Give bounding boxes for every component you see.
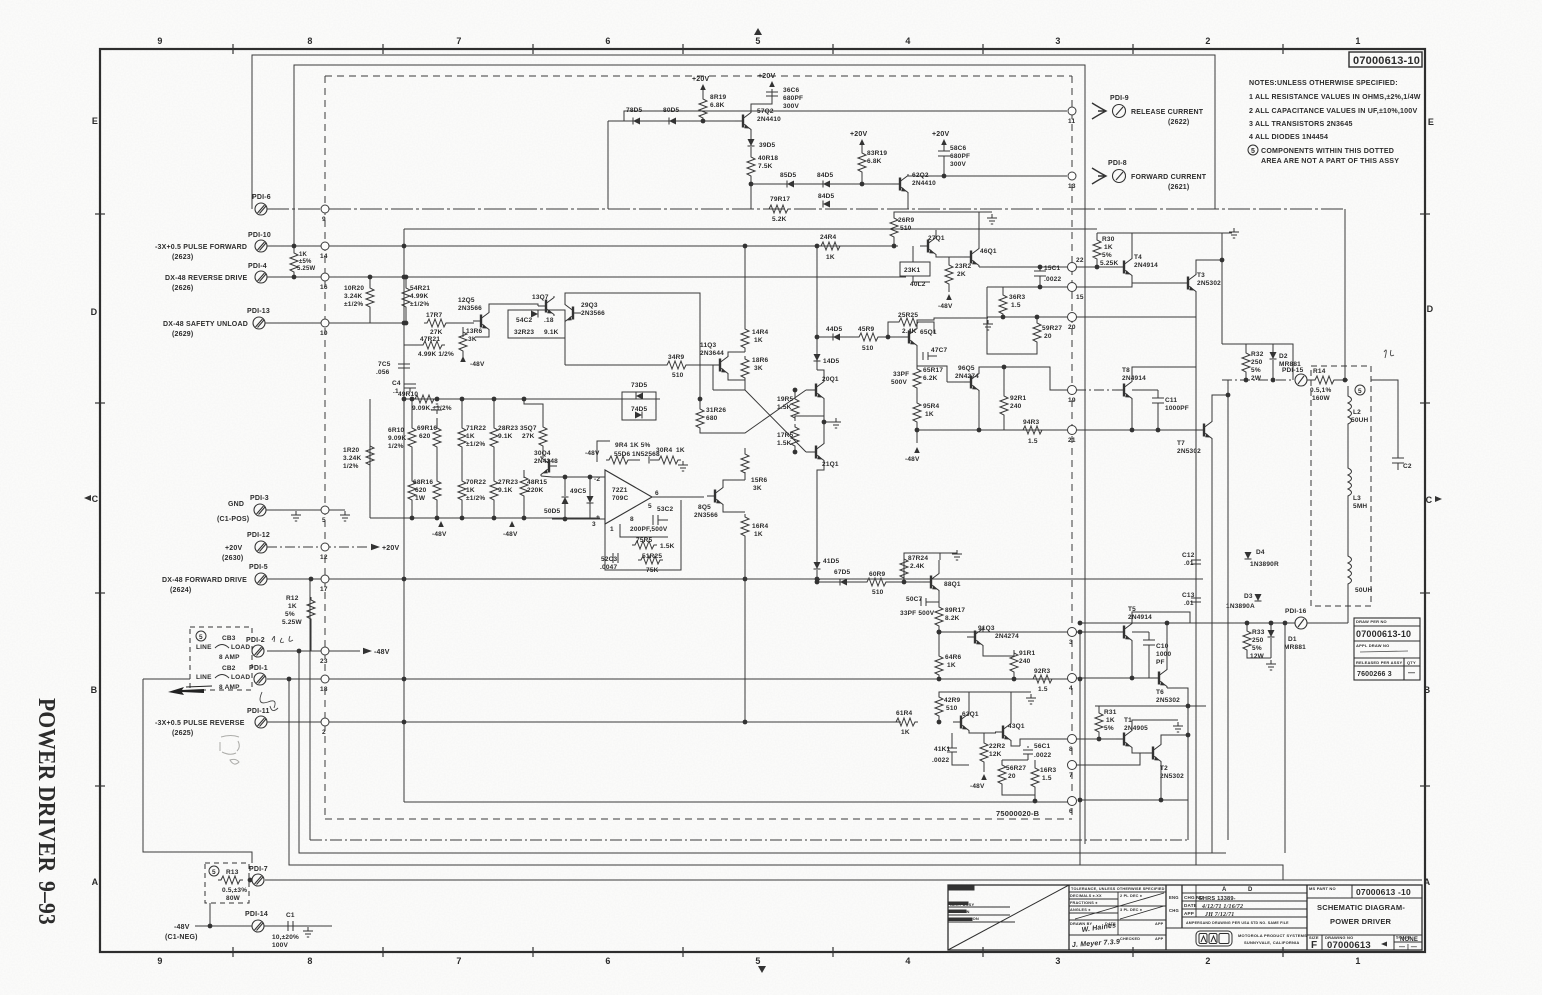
svg-text:250: 250 bbox=[1252, 637, 1264, 644]
svg-text:+20V: +20V bbox=[850, 131, 867, 138]
svg-text:R32: R32 bbox=[1251, 351, 1264, 358]
resistor 19R5 bbox=[794, 390, 796, 396]
svg-text:3 PL DEC ±: 3 PL DEC ± bbox=[1120, 908, 1142, 912]
title section part no row bbox=[1307, 885, 1422, 950]
svg-text:1: 1 bbox=[1355, 956, 1360, 966]
junction T6 emitter x1188 bbox=[1186, 704, 1191, 709]
wire 85D5 row bbox=[751, 183, 898, 185]
junction input a bbox=[563, 475, 568, 480]
vertical rail x1080 bbox=[1079, 632, 1081, 865]
junction bus dots bbox=[402, 244, 1083, 725]
wire PDI-14 bbox=[195, 925, 252, 927]
PDI-3 net bbox=[266, 509, 345, 511]
revision table bbox=[1166, 885, 1307, 928]
dotted assy boundary top bbox=[325, 75, 1072, 77]
node 3 bbox=[1068, 628, 1077, 637]
svg-text:47R21: 47R21 bbox=[420, 336, 440, 343]
capacitor C4 bbox=[404, 384, 416, 392]
diode 84D5b on PDI-6 net bbox=[823, 201, 830, 208]
svg-text:SUNNYVALE, CALIFORNIA: SUNNYVALE, CALIFORNIA bbox=[1244, 940, 1299, 945]
resistor R3 on inner box leg bbox=[290, 246, 298, 277]
resistor R14 bbox=[1307, 376, 1348, 384]
svg-text:25R25: 25R25 bbox=[898, 312, 918, 319]
svg-text:PDI-10: PDI-10 bbox=[248, 232, 271, 239]
svg-text:1.5: 1.5 bbox=[1028, 438, 1038, 445]
svg-text:7: 7 bbox=[456, 956, 461, 966]
note 5 marker in filter box bbox=[1355, 385, 1365, 395]
wire 62Q2 collector to fwd current net bbox=[908, 174, 1067, 176]
svg-text:9R4: 9R4 bbox=[615, 442, 628, 449]
wire 96Q5 emitter bbox=[978, 392, 980, 430]
svg-text:510: 510 bbox=[672, 372, 684, 379]
svg-text:13R6: 13R6 bbox=[466, 328, 483, 335]
svg-text:53C2: 53C2 bbox=[657, 506, 674, 513]
connector circles on left dotted boundary bbox=[321, 205, 329, 726]
svg-text:1: 1 bbox=[610, 526, 614, 533]
svg-text:1K: 1K bbox=[754, 531, 763, 538]
svg-text:CB2: CB2 bbox=[222, 665, 236, 672]
zone tick marks left and right bbox=[95, 214, 1430, 786]
tolerance section bbox=[1069, 892, 1166, 935]
node 12 bbox=[321, 543, 329, 551]
svg-text:20Q1: 20Q1 bbox=[822, 376, 839, 383]
PDI-11 net bbox=[267, 721, 901, 723]
svg-text:1K: 1K bbox=[466, 433, 475, 440]
connector circles on right dotted boundary bbox=[1068, 107, 1077, 806]
svg-text:68R16: 68R16 bbox=[413, 479, 433, 486]
svg-text:1.5: 1.5 bbox=[1038, 686, 1048, 693]
junction 92R1 top bbox=[1002, 365, 1007, 370]
svg-text:49R10: 49R10 bbox=[398, 391, 418, 398]
eng column divider bbox=[1181, 885, 1183, 928]
wire 12Q5 emitter bbox=[475, 331, 489, 337]
note 5 marker at R13 bbox=[209, 866, 219, 876]
svg-text:±1/2%: ±1/2% bbox=[466, 441, 485, 448]
svg-text:5: 5 bbox=[648, 503, 652, 510]
svg-text:74D5: 74D5 bbox=[631, 406, 648, 413]
wire 12Q5 collector bbox=[489, 304, 538, 311]
resistor 16R3 bbox=[1031, 760, 1039, 801]
vertical rail x1285 bbox=[1284, 623, 1286, 853]
svg-text:49C5: 49C5 bbox=[570, 488, 587, 495]
junction PDI-1 bbox=[287, 677, 292, 682]
node 13 bbox=[1068, 172, 1076, 180]
svg-text:2N5302: 2N5302 bbox=[1177, 448, 1201, 455]
svg-text:(2626): (2626) bbox=[172, 285, 193, 292]
svg-text:4 ALL DIODES 1N4454: 4 ALL DIODES 1N4454 bbox=[1249, 133, 1328, 141]
junction C11 bottom bbox=[1156, 428, 1161, 433]
wire 27Q1 emitter to 46Q1 base bbox=[936, 256, 964, 257]
resistor 17R7 on PDI-13 net bbox=[424, 319, 474, 327]
svg-text:680: 680 bbox=[706, 415, 718, 422]
svg-text:QTY: QTY bbox=[1407, 660, 1416, 665]
svg-text:83R19: 83R19 bbox=[867, 150, 887, 157]
svg-text:92R1: 92R1 bbox=[1010, 395, 1027, 402]
svg-text:17R7: 17R7 bbox=[426, 312, 443, 319]
junction input b bbox=[588, 475, 593, 480]
wire bottom loop bbox=[1080, 799, 1188, 801]
junction 17R5 base bbox=[793, 450, 798, 455]
svg-text:1K: 1K bbox=[947, 662, 956, 669]
svg-text:T4: T4 bbox=[1134, 254, 1142, 261]
svg-text:17R5: 17R5 bbox=[777, 432, 794, 439]
PDI-9 output arrow bbox=[1092, 103, 1106, 119]
connector PDI-7 bbox=[252, 874, 264, 886]
svg-text:45R9: 45R9 bbox=[858, 326, 875, 333]
svg-text:NOTES:UNLESS OTHERWISE SPECIFI: NOTES:UNLESS OTHERWISE SPECIFIED: bbox=[1249, 79, 1398, 87]
svg-text:35Q7: 35Q7 bbox=[520, 425, 537, 432]
capacitor 50C7 bbox=[920, 598, 922, 606]
wire T7 collector bbox=[1212, 395, 1228, 420]
node 6 bbox=[1068, 797, 1077, 806]
node 21 bbox=[1068, 426, 1077, 435]
svg-text:26R9: 26R9 bbox=[898, 217, 915, 224]
zone tick marks top bbox=[233, 44, 1283, 54]
transistor 11Q3 bbox=[712, 355, 728, 375]
pencil smudge below PDI-11 bbox=[220, 736, 239, 765]
svg-text:.0022: .0022 bbox=[1034, 752, 1051, 759]
svg-text:240: 240 bbox=[1019, 658, 1031, 665]
svg-text:2 ALL CAPACITANCE VALUES IN U: 2 ALL CAPACITANCE VALUES IN UF,±10%,100V bbox=[1249, 107, 1417, 115]
ground emitters bbox=[831, 418, 841, 428]
svg-text:78D5: 78D5 bbox=[626, 107, 643, 114]
wire R31 loop bbox=[1095, 705, 1206, 707]
note 5 marker circle bbox=[196, 631, 206, 641]
svg-text:3K: 3K bbox=[753, 485, 762, 492]
notes block bbox=[1249, 79, 1421, 165]
svg-text:CHG: CHG bbox=[1169, 908, 1179, 913]
junction T6 collector bbox=[1165, 621, 1170, 626]
node 14 bbox=[321, 242, 329, 250]
svg-text:AREA ARE NOT A PART OF THIS AS: AREA ARE NOT A PART OF THIS ASSY bbox=[1261, 157, 1399, 165]
fold arrow left C bbox=[84, 495, 91, 501]
svg-text:APP: APP bbox=[1155, 922, 1164, 926]
transistor 21Q1 bbox=[808, 442, 824, 462]
transistor 88Q1 bbox=[923, 572, 939, 592]
resistor 40R18 bbox=[747, 154, 755, 179]
junction R32 bottom bbox=[1244, 378, 1249, 383]
svg-text:1.5: 1.5 bbox=[1011, 302, 1021, 309]
wire 29Q3 emitter bbox=[564, 323, 566, 365]
svg-text:2N4274: 2N4274 bbox=[995, 633, 1019, 640]
resistor 65R17 bbox=[913, 366, 921, 391]
svg-text:MS PART NO: MS PART NO bbox=[1309, 886, 1336, 891]
svg-text:33PF 500V: 33PF 500V bbox=[900, 610, 935, 617]
svg-text:1K: 1K bbox=[466, 487, 475, 494]
svg-text:31R26: 31R26 bbox=[706, 407, 726, 414]
wire to 21Q1 base bbox=[806, 451, 809, 453]
wire 8Q5 collector bbox=[723, 480, 745, 486]
svg-text:94R3: 94R3 bbox=[1023, 419, 1040, 426]
svg-text:39D5: 39D5 bbox=[759, 142, 776, 149]
crossover wire a bbox=[726, 390, 806, 433]
svg-text:1N3890A: 1N3890A bbox=[1226, 603, 1255, 610]
svg-text:23R2: 23R2 bbox=[955, 263, 972, 270]
svg-text:6.8K: 6.8K bbox=[710, 102, 725, 109]
wire 40R18 to 85D5 row bbox=[750, 179, 752, 209]
rev table right divider bbox=[1306, 885, 1308, 950]
wire y678 right of dashed bbox=[143, 679, 252, 863]
wire net15 bbox=[987, 286, 1067, 288]
svg-text:88Q1: 88Q1 bbox=[944, 581, 961, 588]
svg-text:1000PF: 1000PF bbox=[1165, 405, 1189, 412]
node 22 bbox=[1068, 263, 1077, 272]
wire 44D5 row bbox=[817, 336, 856, 338]
svg-text:L2: L2 bbox=[1353, 409, 1361, 416]
svg-text:1K: 1K bbox=[1104, 244, 1113, 251]
capacitor C11 bbox=[1157, 390, 1159, 398]
svg-text:34R9: 34R9 bbox=[668, 354, 685, 361]
wire 57Q2 collector bbox=[751, 89, 772, 111]
node 15 bbox=[1068, 283, 1077, 292]
connector PDI-14 bbox=[252, 920, 264, 932]
+20V arrow at PDI-12 bbox=[371, 544, 380, 550]
resistor 75R5 bbox=[632, 541, 657, 549]
transistor 96Q5 bbox=[963, 372, 979, 392]
svg-text:30Q4: 30Q4 bbox=[534, 450, 551, 457]
connector PDI-12 bbox=[255, 541, 267, 553]
svg-text:D4: D4 bbox=[1256, 549, 1265, 556]
svg-text:4: 4 bbox=[1069, 685, 1073, 692]
connector PDI-8 bbox=[1113, 170, 1126, 183]
svg-text:T3: T3 bbox=[1197, 272, 1205, 279]
svg-text:PDI-12: PDI-12 bbox=[247, 532, 270, 539]
svg-text:510: 510 bbox=[872, 589, 884, 596]
svg-text:84D5: 84D5 bbox=[818, 193, 835, 200]
capacitor 41K1 bbox=[951, 733, 953, 748]
wire rail to PDI-5 chain bbox=[816, 570, 818, 582]
wire 57Q2 emitter drop bbox=[607, 121, 609, 209]
wire T3 collector bbox=[1196, 260, 1222, 273]
svg-text:C: C bbox=[92, 494, 99, 504]
diode pair box 73D5/74D5 bbox=[622, 392, 656, 420]
transistor 65Q1 bbox=[901, 327, 917, 347]
svg-text:5: 5 bbox=[199, 634, 203, 641]
svg-text:59R27: 59R27 bbox=[1042, 325, 1062, 332]
resistor 15R6 bbox=[744, 472, 746, 480]
resistor 91R1 bbox=[1013, 650, 1015, 656]
capacitor 56C1 bbox=[1027, 746, 1029, 748]
vertical bus x404 bbox=[403, 229, 405, 802]
wire diode row bbox=[608, 120, 736, 122]
grid column 1R20 bbox=[366, 443, 374, 468]
svg-text:2: 2 bbox=[1205, 36, 1210, 46]
svg-text:DATE: DATE bbox=[1184, 903, 1197, 908]
bus wire y228 bbox=[404, 228, 1097, 230]
zone letters right bbox=[1424, 117, 1434, 887]
junction 89R17 bottom bbox=[937, 630, 942, 635]
wire 63Q1 collector bbox=[968, 692, 970, 712]
svg-text:9.1K: 9.1K bbox=[544, 329, 559, 336]
junction 17R7 bbox=[404, 321, 409, 326]
vertical rail x1194 bbox=[1195, 367, 1197, 865]
svg-text:9.09K: 9.09K bbox=[388, 435, 406, 442]
svg-text:12: 12 bbox=[320, 554, 328, 561]
svg-text:620: 620 bbox=[415, 487, 427, 494]
svg-text:±1/2%: ±1/2% bbox=[466, 495, 485, 502]
svg-text:7600266 3: 7600266 3 bbox=[1357, 671, 1392, 678]
diode 14D5 on rail bbox=[814, 354, 821, 361]
svg-text:41K1: 41K1 bbox=[934, 746, 951, 753]
junction 19R5 base bbox=[793, 388, 798, 393]
svg-text:16R3: 16R3 bbox=[1040, 767, 1057, 774]
svg-text:3 ALL TRANSISTORS 2N3645: 3 ALL TRANSISTORS 2N3645 bbox=[1249, 120, 1353, 128]
centering arrow top bbox=[754, 28, 762, 35]
svg-text:-48V: -48V bbox=[905, 456, 920, 463]
svg-text:56C1: 56C1 bbox=[1034, 743, 1051, 750]
svg-text:1K 5%: 1K 5% bbox=[630, 442, 651, 449]
svg-text:5%: 5% bbox=[1102, 252, 1112, 259]
wire 34R9 row bbox=[565, 364, 664, 366]
svg-text:5MH: 5MH bbox=[1353, 503, 1367, 510]
svg-text:3.24K: 3.24K bbox=[344, 293, 362, 300]
svg-text:07000613-10: 07000613-10 bbox=[1356, 629, 1411, 639]
resistor 47R21 bbox=[404, 341, 445, 349]
svg-text:DX-48 SAFETY UNLOAD: DX-48 SAFETY UNLOAD bbox=[163, 321, 248, 328]
svg-text:JH 7/12/71: JH 7/12/71 bbox=[1204, 912, 1235, 918]
svg-text:1K: 1K bbox=[1106, 717, 1115, 724]
wire node8 to T1 base bbox=[1076, 738, 1117, 740]
svg-text:1 ALL RESISTANCE VALUES IN OH: 1 ALL RESISTANCE VALUES IN OHMS,±2%,1/4W bbox=[1249, 93, 1421, 101]
-48V below 22R2 bbox=[981, 774, 987, 780]
svg-text:9: 9 bbox=[322, 216, 326, 223]
svg-text:48R15: 48R15 bbox=[527, 479, 547, 486]
wire R13 to PDI-14 bbox=[209, 903, 211, 926]
svg-text:42R9: 42R9 bbox=[944, 697, 961, 704]
ground T1 bbox=[1172, 719, 1178, 721]
svg-text:2N4274: 2N4274 bbox=[955, 373, 979, 380]
svg-text:2N3566: 2N3566 bbox=[581, 310, 605, 317]
svg-text:0.5,1%: 0.5,1% bbox=[1310, 387, 1331, 394]
svg-text:44D5: 44D5 bbox=[826, 326, 843, 333]
svg-text:-48V: -48V bbox=[174, 924, 190, 931]
svg-text:-48V: -48V bbox=[938, 303, 953, 310]
svg-text:4: 4 bbox=[905, 956, 910, 966]
svg-text:30R4: 30R4 bbox=[656, 447, 673, 454]
wire 43Q1 collector bbox=[1010, 692, 1012, 722]
svg-text:E: E bbox=[1428, 117, 1434, 127]
svg-text:300V: 300V bbox=[783, 103, 799, 110]
junction 54R21 top bbox=[404, 275, 409, 280]
svg-text:±5%: ±5% bbox=[299, 259, 312, 265]
node 16 bbox=[321, 273, 329, 281]
svg-text:(2623): (2623) bbox=[172, 254, 193, 261]
svg-text:250: 250 bbox=[1251, 359, 1263, 366]
svg-text:12W: 12W bbox=[1250, 653, 1265, 660]
junction 87R24 bbox=[902, 580, 907, 585]
svg-text:15R6: 15R6 bbox=[751, 477, 768, 484]
svg-text:72Z1: 72Z1 bbox=[612, 487, 628, 494]
bottom dash-dot return wire bbox=[309, 579, 311, 840]
wire 43Q1 out to node 8 bbox=[1020, 739, 1067, 746]
resistor 54R21 bbox=[405, 277, 407, 285]
junction T7 collector bbox=[1226, 393, 1231, 398]
node 23 bbox=[321, 647, 329, 655]
svg-text:100V: 100V bbox=[272, 942, 288, 949]
svg-text:80D5: 80D5 bbox=[663, 107, 680, 114]
svg-text:5%: 5% bbox=[1251, 367, 1261, 374]
inductor L3 bbox=[1348, 435, 1352, 520]
node 20 bbox=[1068, 313, 1077, 322]
svg-text:40R18: 40R18 bbox=[758, 155, 778, 162]
svg-text:6.2K: 6.2K bbox=[923, 375, 938, 382]
amp input network box edge bbox=[370, 399, 660, 518]
svg-text:21: 21 bbox=[1068, 437, 1076, 444]
svg-text:PDI-2: PDI-2 bbox=[246, 637, 265, 644]
svg-text:80W: 80W bbox=[226, 895, 241, 902]
junction 16R3 bottom bbox=[1033, 799, 1038, 804]
svg-text:MR881: MR881 bbox=[1284, 644, 1306, 651]
ground at C1 bbox=[303, 927, 313, 937]
junction T8 emitter bbox=[1130, 428, 1135, 433]
svg-text:16R4: 16R4 bbox=[752, 523, 769, 530]
svg-text:7C5: 7C5 bbox=[378, 361, 391, 368]
svg-text:7: 7 bbox=[1069, 772, 1073, 779]
junction T5 emitter bbox=[1130, 676, 1135, 681]
inductor L2 bbox=[1348, 386, 1352, 435]
svg-text:16: 16 bbox=[320, 284, 328, 291]
svg-text:.0047: .0047 bbox=[600, 564, 617, 571]
junction T2 collector bbox=[1186, 733, 1191, 738]
resistor 48R15 column bbox=[520, 470, 528, 518]
svg-text:75000020-B: 75000020-B bbox=[996, 809, 1040, 818]
junction 40R18 bbox=[749, 182, 754, 187]
svg-text:3: 3 bbox=[592, 521, 596, 528]
svg-text:2N4410: 2N4410 bbox=[912, 180, 936, 187]
svg-text:PDI-14: PDI-14 bbox=[245, 911, 268, 918]
capacitor 47C7 bbox=[922, 352, 924, 360]
wire noninverting input bbox=[552, 518, 605, 520]
svg-text:17: 17 bbox=[320, 586, 328, 593]
svg-text:8 AMP: 8 AMP bbox=[219, 684, 240, 691]
resistor 49R10 on y399 bbox=[412, 395, 437, 403]
svg-text:91R1: 91R1 bbox=[1019, 650, 1036, 657]
wire T8 emitter bbox=[1131, 400, 1133, 430]
drawing sheet border frame bbox=[100, 49, 1425, 952]
connector PDI-15 bbox=[1295, 374, 1307, 386]
svg-text:PDI-5: PDI-5 bbox=[249, 564, 268, 571]
svg-text:5: 5 bbox=[755, 36, 760, 46]
svg-text:54R21: 54R21 bbox=[410, 285, 430, 292]
svg-text:3K: 3K bbox=[468, 336, 477, 343]
wire 30Q4 emitter to input bbox=[541, 476, 552, 477]
svg-text:PDI-9: PDI-9 bbox=[1110, 95, 1129, 102]
wire C11 top bbox=[1132, 389, 1158, 391]
connector PDI-4 bbox=[255, 271, 267, 283]
junction 83R19 bbox=[860, 182, 865, 187]
svg-text:LOAD: LOAD bbox=[231, 674, 250, 681]
inner solid box top bbox=[294, 65, 1085, 844]
wire 21Q1 collector bbox=[817, 462, 824, 567]
junction 95R4/430 bbox=[915, 428, 920, 433]
resistor 30R4 bbox=[650, 456, 681, 464]
svg-text:5%: 5% bbox=[1104, 725, 1114, 732]
svg-text:3: 3 bbox=[1055, 36, 1060, 46]
resistor 56R27 bbox=[998, 760, 1035, 795]
svg-text:20: 20 bbox=[1068, 324, 1076, 331]
svg-text:18: 18 bbox=[320, 686, 328, 693]
svg-text:.056: .056 bbox=[376, 369, 390, 376]
PDI-2 net bbox=[267, 650, 360, 652]
diode 50D5a bbox=[562, 497, 569, 504]
wire T8 collector bbox=[1132, 367, 1196, 380]
svg-text:2N5302: 2N5302 bbox=[1160, 773, 1184, 780]
svg-text:DX-48 FORWARD DRIVE: DX-48 FORWARD DRIVE bbox=[162, 577, 247, 584]
left signal labels bbox=[155, 244, 249, 941]
wire 20Q1 emitter bbox=[823, 400, 825, 416]
svg-text:5.25K: 5.25K bbox=[1100, 260, 1118, 267]
svg-text:5.25W: 5.25W bbox=[282, 619, 302, 626]
